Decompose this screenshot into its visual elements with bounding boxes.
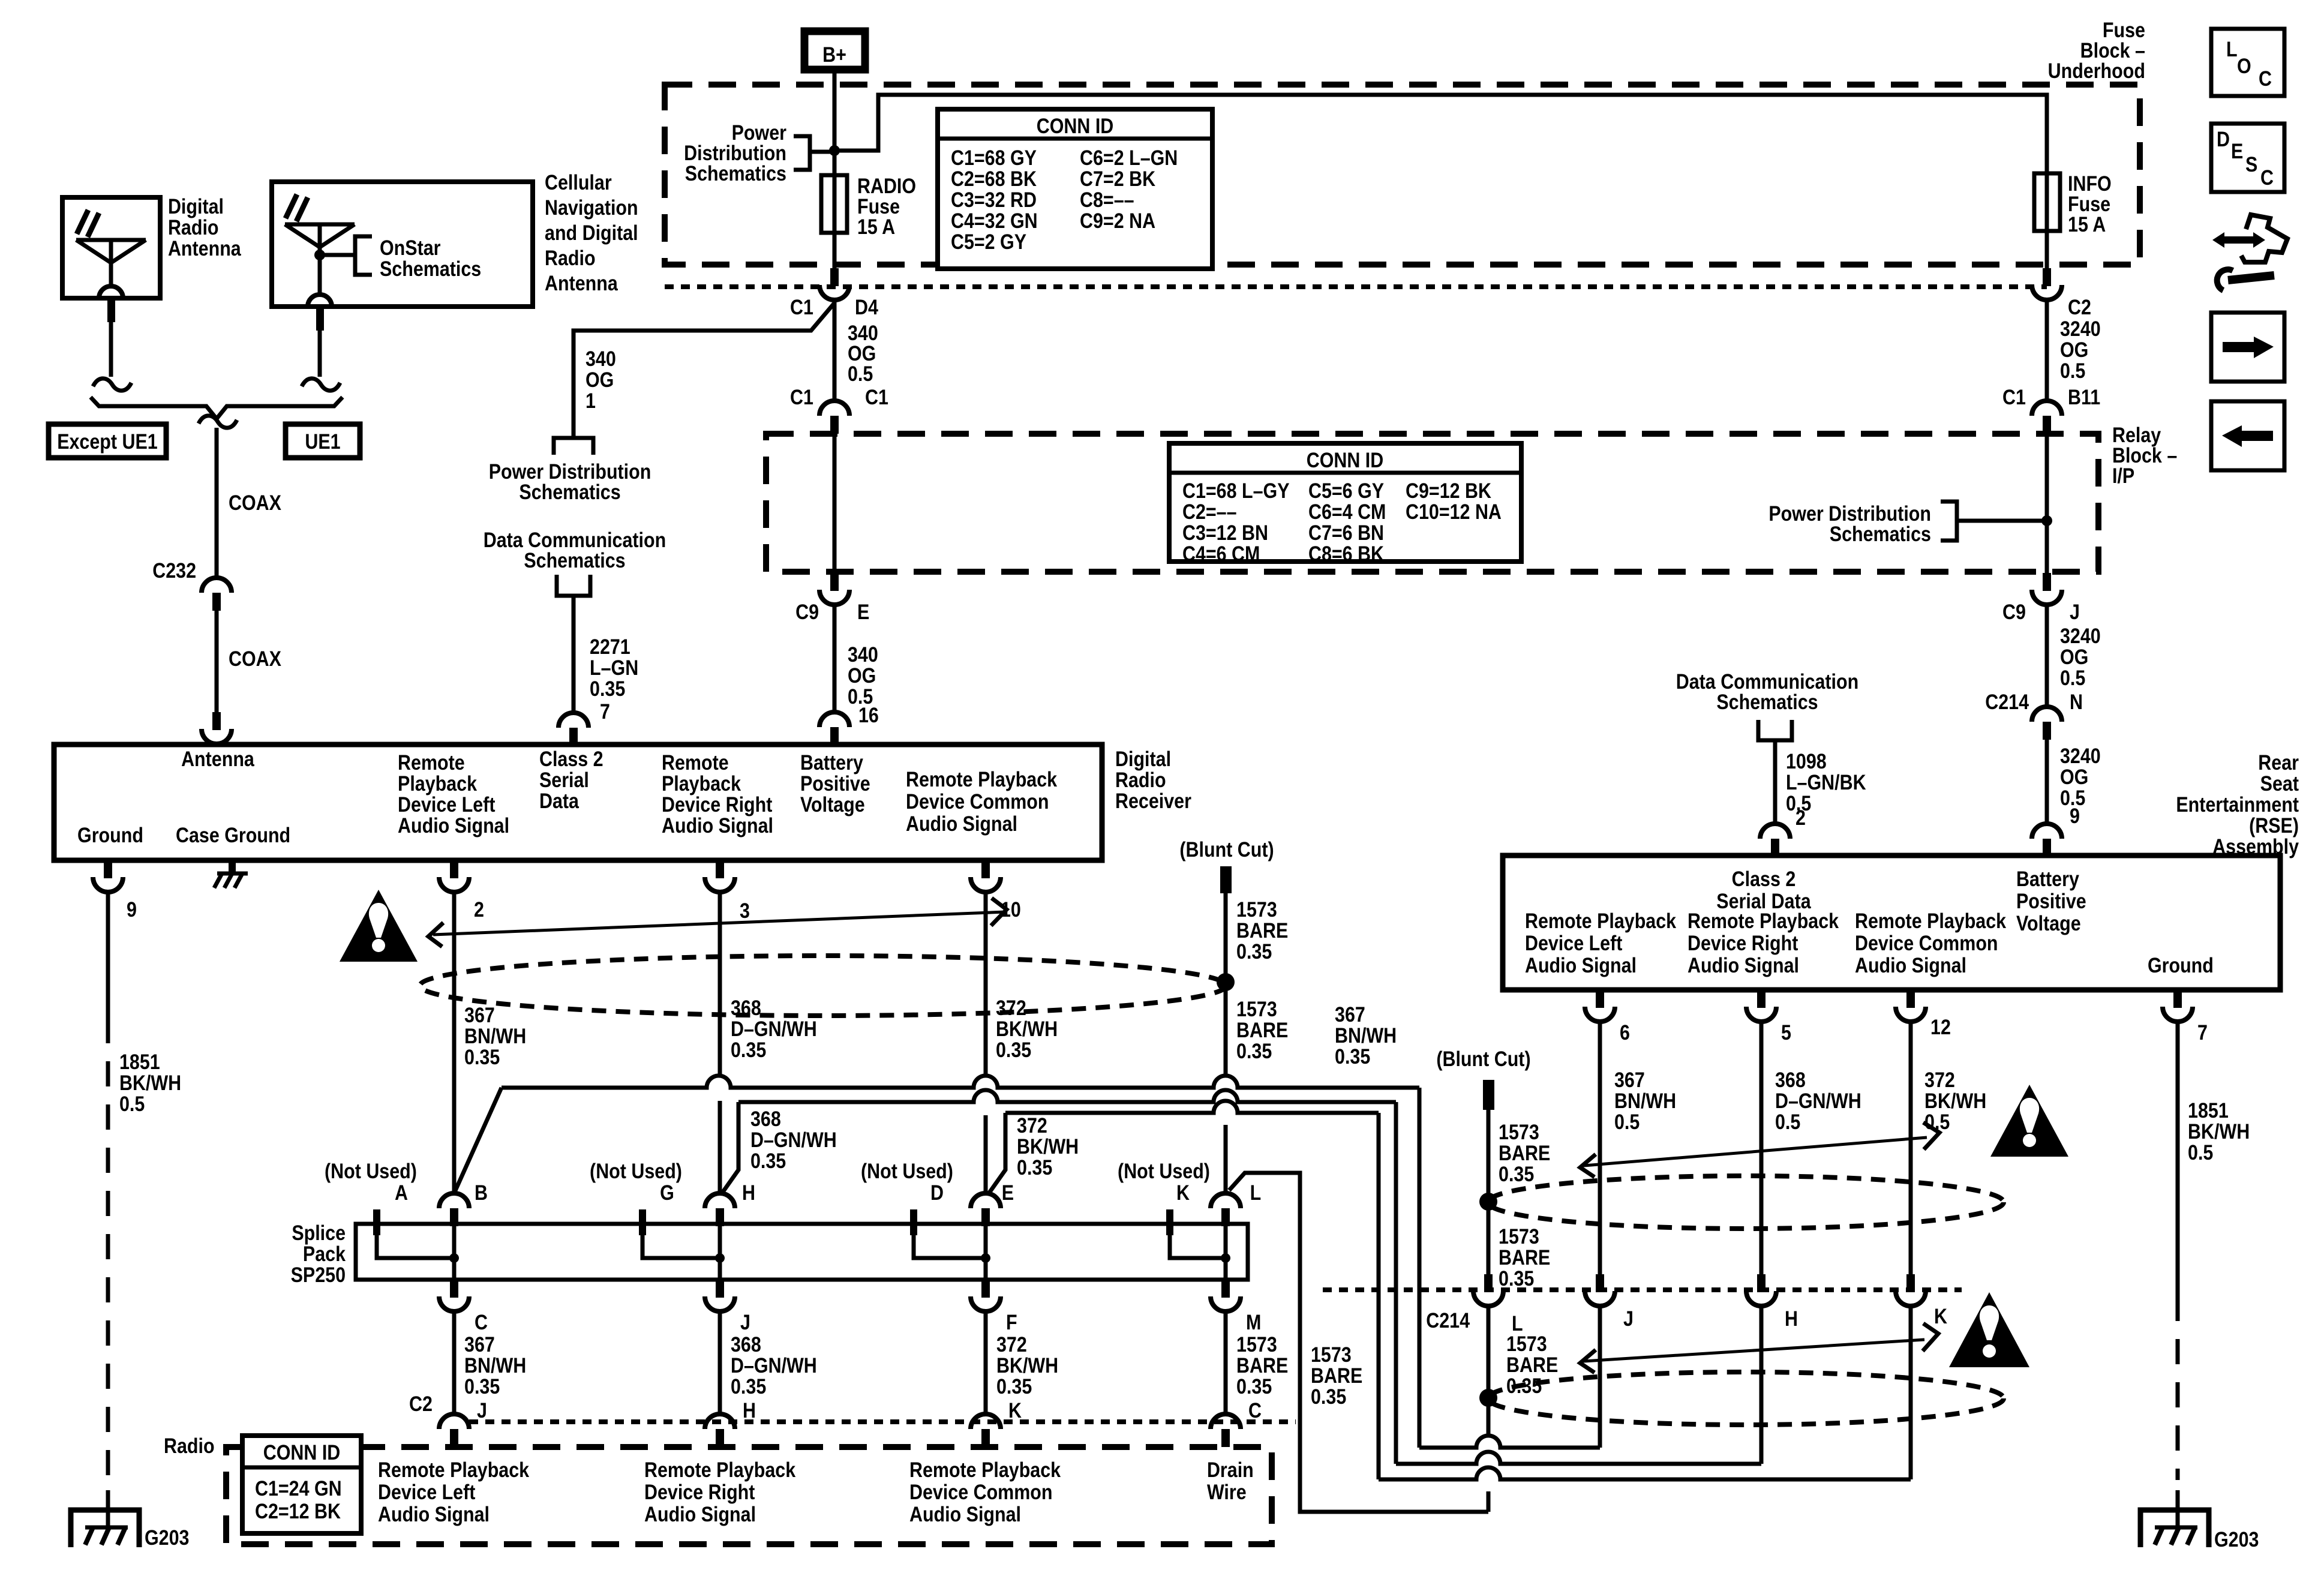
svg-text:Audio Signal: Audio Signal	[378, 1502, 490, 1526]
svg-text:Radio: Radio	[545, 246, 596, 269]
svg-text:Cellular: Cellular	[545, 170, 612, 194]
svg-text:Case Ground: Case Ground	[176, 823, 290, 846]
svg-text:0.35: 0.35	[590, 677, 625, 700]
fuse RADIO 15A	[821, 174, 916, 238]
svg-text:Device Left: Device Left	[398, 792, 496, 816]
svg-text:C9=2 NA: C9=2 NA	[1080, 209, 1155, 232]
svg-text:372: 372	[1924, 1068, 1955, 1091]
svg-text:Remote Playback: Remote Playback	[909, 1458, 1061, 1481]
svg-text:CONN ID: CONN ID	[1037, 114, 1114, 137]
svg-text:Device Common: Device Common	[1855, 931, 1998, 954]
svg-text:N: N	[2070, 690, 2083, 713]
svg-text:2: 2	[474, 897, 484, 921]
svg-text:368: 368	[731, 1332, 761, 1356]
svg-text:(Blunt Cut): (Blunt Cut)	[1179, 837, 1274, 861]
svg-text:C1: C1	[2002, 385, 2026, 409]
svg-text:Digital: Digital	[168, 194, 224, 218]
power distribution bracket left	[794, 136, 834, 170]
svg-text:Radio: Radio	[164, 1434, 215, 1457]
svg-text:BN/WH: BN/WH	[1335, 1023, 1397, 1047]
svg-text:Audio Signal: Audio Signal	[644, 1502, 756, 1526]
svg-text:I/P: I/P	[2112, 464, 2134, 487]
box UE1	[286, 424, 360, 458]
svg-text:368: 368	[750, 1107, 781, 1130]
svg-text:1573: 1573	[1236, 897, 1277, 921]
svg-text:0.35: 0.35	[1236, 1039, 1272, 1062]
svg-text:E: E	[857, 600, 869, 623]
svg-text:Antenna: Antenna	[168, 236, 241, 260]
connector C1 B11 relay block	[2002, 385, 2100, 434]
antenna symbol 2	[285, 194, 355, 307]
wire 367 lower horizontal	[1419, 1436, 1600, 1448]
label not used A	[325, 1159, 417, 1204]
svg-text:Schematics: Schematics	[685, 161, 786, 185]
svg-text:K: K	[1934, 1304, 1947, 1328]
svg-text:J: J	[2070, 600, 2080, 623]
svg-text:and Digital: and Digital	[545, 221, 638, 244]
svg-text:J: J	[1623, 1307, 1634, 1330]
svg-text:Battery: Battery	[800, 751, 864, 774]
svg-text:2271: 2271	[590, 635, 630, 658]
icon LOC box	[2211, 29, 2284, 96]
label radio drain wire	[1207, 1458, 1254, 1503]
drain wire 2 upper	[1488, 1110, 1550, 1274]
label not used D	[861, 1159, 953, 1204]
svg-text:C1: C1	[865, 385, 888, 409]
label COAX upper	[229, 491, 281, 514]
onstar tap dot	[314, 250, 355, 260]
svg-text:BARE: BARE	[1506, 1353, 1558, 1376]
svg-text:BARE: BARE	[1311, 1364, 1362, 1387]
svg-text:C2: C2	[409, 1392, 433, 1415]
svg-text:B: B	[475, 1181, 488, 1204]
svg-text:BK/WH: BK/WH	[119, 1071, 181, 1094]
svg-text:Voltage: Voltage	[800, 792, 865, 816]
svg-text:367: 367	[464, 1003, 495, 1026]
svg-text:(Not Used): (Not Used)	[590, 1159, 682, 1182]
svg-text:1573: 1573	[1506, 1332, 1547, 1355]
svg-text:C8=6 BK: C8=6 BK	[1308, 542, 1384, 565]
ip harness dotted line	[665, 284, 2047, 289]
label not used K	[1118, 1159, 1210, 1204]
label Power Distribution Schematics left	[684, 121, 786, 185]
leader line warning 3	[1580, 1323, 1938, 1373]
wire 3240 OG 0.5 mid	[2047, 605, 2101, 707]
label Fuse Block Underhood	[2048, 18, 2145, 82]
wire H down	[1759, 1306, 1764, 1464]
svg-text:C10=12 NA: C10=12 NA	[1406, 500, 1502, 523]
wire 368 right vertical	[1394, 1102, 1398, 1464]
svg-text:Class 2: Class 2	[1732, 867, 1796, 890]
svg-text:Battery: Battery	[2016, 867, 2080, 890]
branch wire 340 OG 1	[574, 303, 834, 438]
splice stub D	[910, 1209, 986, 1258]
wire 3240 OG 0.5 upper right	[2047, 299, 2101, 401]
connector pin 16 receiver	[819, 712, 849, 745]
junction dot B+ feed	[829, 145, 840, 156]
svg-text:C: C	[2260, 166, 2274, 189]
svg-text:340: 340	[585, 347, 616, 370]
c214 dotted line	[1323, 1287, 1962, 1292]
connector splice C	[439, 1280, 488, 1334]
connector pin 9 ground	[93, 860, 137, 921]
svg-text:Seat: Seat	[2260, 772, 2299, 795]
conn id table radio	[242, 1436, 361, 1533]
svg-text:0.5: 0.5	[1775, 1110, 1800, 1133]
svg-text:0.35: 0.35	[1335, 1044, 1370, 1068]
svg-text:BARE: BARE	[1236, 918, 1288, 942]
drain wire 1 upper	[1226, 893, 1288, 1074]
svg-text:E: E	[2231, 139, 2243, 163]
connector C9 E	[795, 573, 869, 623]
svg-text:(Not Used): (Not Used)	[325, 1159, 417, 1182]
connector C1 D4	[790, 268, 879, 319]
svg-text:G: G	[660, 1181, 674, 1204]
svg-text:1573: 1573	[1236, 1332, 1277, 1356]
svg-text:Device Right: Device Right	[1688, 931, 1798, 954]
icon arrow left box	[2211, 401, 2284, 470]
connector rse pin 6	[1585, 990, 1630, 1044]
connector radio H	[705, 1414, 735, 1447]
svg-text:E: E	[1002, 1181, 1014, 1204]
connector radio C2 J	[439, 1414, 469, 1447]
splice junction dot E	[981, 1181, 1014, 1280]
svg-text:B+: B+	[822, 43, 846, 66]
svg-text:Audio Signal: Audio Signal	[1855, 953, 1966, 977]
svg-text:(Not Used): (Not Used)	[1118, 1159, 1210, 1182]
svg-text:BK/WH: BK/WH	[2188, 1119, 2250, 1143]
svg-text:340: 340	[848, 643, 878, 666]
svg-text:Digital: Digital	[1115, 747, 1171, 770]
warning triangle 2	[1990, 1085, 2068, 1157]
svg-text:0.35: 0.35	[464, 1374, 500, 1398]
svg-text:C4=32 GN: C4=32 GN	[951, 209, 1038, 232]
svg-text:COAX: COAX	[229, 647, 281, 670]
svg-text:BN/WH: BN/WH	[464, 1024, 526, 1047]
label Battery Positive Voltage	[800, 751, 870, 816]
connector pin 10	[971, 860, 1021, 921]
label Power Distribution Schematics right	[1768, 502, 1931, 545]
label 1573 BARE between	[1499, 1224, 1550, 1290]
shield ellipse 1	[420, 956, 1226, 1016]
svg-text:L: L	[1250, 1181, 1262, 1204]
svg-text:OG: OG	[848, 664, 876, 687]
ground wire 1851 left	[108, 891, 181, 1512]
svg-text:Audio Signal: Audio Signal	[1688, 953, 1799, 977]
label Splice Pack SP250	[291, 1221, 346, 1286]
connector pin 3	[705, 860, 750, 922]
svg-text:BK/WH: BK/WH	[996, 1353, 1058, 1377]
svg-text:16: 16	[858, 703, 879, 727]
wire 1098 L-GN/BK	[1775, 740, 1866, 829]
svg-text:BARE: BARE	[1236, 1018, 1288, 1041]
svg-text:Audio Signal: Audio Signal	[906, 812, 1017, 835]
wire rse 368 D-GN/WH 0.5	[1761, 1022, 1861, 1274]
svg-text:D–GN/WH: D–GN/WH	[731, 1353, 817, 1377]
connector splice J	[705, 1280, 750, 1334]
wire break below brace	[199, 416, 237, 428]
svg-text:A: A	[395, 1181, 408, 1204]
svg-text:1573: 1573	[1499, 1224, 1539, 1248]
svg-text:Antenna: Antenna	[545, 271, 618, 295]
svg-text:C214: C214	[1985, 690, 2029, 713]
svg-text:372: 372	[1017, 1113, 1047, 1137]
svg-text:(RSE): (RSE)	[2249, 813, 2299, 837]
svg-text:368: 368	[1775, 1068, 1806, 1091]
connector splice F	[971, 1280, 1017, 1334]
shield dot upper right	[1479, 1193, 1497, 1211]
svg-text:Playback: Playback	[398, 772, 478, 795]
digital radio receiver box	[54, 745, 1102, 860]
connector rse pin 12	[1896, 990, 1951, 1038]
label rse remote playback left	[1525, 909, 1677, 977]
label not used G	[590, 1159, 682, 1204]
wire 340 OG 0.5 to pin 16	[834, 605, 879, 727]
svg-text:0.35: 0.35	[1499, 1266, 1534, 1290]
svg-text:Navigation: Navigation	[545, 196, 638, 219]
svg-text:3240: 3240	[2060, 744, 2101, 767]
svg-text:C1=68 L–GY: C1=68 L–GY	[1182, 479, 1290, 502]
wire 367 horizontal run	[502, 1076, 1419, 1088]
svg-text:C4=6 CM: C4=6 CM	[1182, 542, 1260, 565]
svg-text:BK/WH: BK/WH	[1017, 1134, 1079, 1158]
connector pin 9 rse	[2032, 824, 2062, 857]
svg-text:(Not Used): (Not Used)	[861, 1159, 953, 1182]
connector C232	[202, 578, 232, 611]
ground wire 1851 right	[2178, 1022, 2250, 1512]
splice stub A	[373, 1209, 454, 1258]
power distribution bracket bottom	[554, 438, 593, 455]
label Antenna pin	[181, 747, 254, 770]
svg-text:Schematics: Schematics	[1830, 522, 1931, 545]
svg-text:L: L	[2226, 37, 2238, 61]
svg-text:C9: C9	[795, 600, 819, 623]
svg-text:Assembly: Assembly	[2212, 834, 2299, 858]
label Remote Playback Device Right	[662, 751, 773, 837]
svg-text:6: 6	[1620, 1020, 1630, 1044]
svg-text:C6=2 L–GN: C6=2 L–GN	[1080, 146, 1178, 169]
svg-text:D–GN/WH: D–GN/WH	[750, 1128, 837, 1151]
label Data Communication Schematics right	[1676, 670, 1858, 713]
svg-text:OG: OG	[2060, 338, 2088, 361]
label COAX lower	[229, 647, 281, 670]
svg-text:0.35: 0.35	[1017, 1155, 1052, 1179]
coax wire lower	[215, 611, 219, 712]
svg-text:C7=2 BK: C7=2 BK	[1080, 167, 1155, 190]
wire 367 diagonal to horizontal	[454, 1088, 502, 1193]
drain wire 2 lower	[1487, 1306, 1491, 1512]
label Digital Radio Receiver	[1115, 747, 1191, 812]
wire break antenna 1	[93, 379, 131, 391]
svg-text:C1: C1	[790, 295, 813, 319]
wire 367 BN/WH from pin 2	[454, 893, 526, 1193]
svg-text:7: 7	[2197, 1020, 2208, 1044]
svg-text:Schematics: Schematics	[519, 480, 620, 503]
svg-text:L–GN/BK: L–GN/BK	[1786, 770, 1866, 794]
drain route from splice L	[1229, 1173, 1488, 1512]
svg-text:Radio: Radio	[1115, 768, 1166, 791]
svg-text:0.35: 0.35	[1236, 939, 1272, 963]
svg-text:O: O	[2237, 54, 2251, 77]
svg-text:2: 2	[1795, 806, 1806, 829]
svg-text:Device Common: Device Common	[906, 789, 1049, 813]
svg-text:Antenna: Antenna	[181, 747, 254, 770]
svg-text:Remote Playback: Remote Playback	[378, 1458, 530, 1481]
svg-text:D–GN/WH: D–GN/WH	[1775, 1089, 1861, 1112]
wire B+ to fuse	[833, 73, 837, 268]
conn id table relay block	[1169, 443, 1521, 565]
wire 3240 OG 0.5 to pin 9	[2047, 740, 2101, 827]
svg-text:C7=6 BN: C7=6 BN	[1308, 521, 1384, 544]
svg-text:Pack: Pack	[303, 1242, 346, 1265]
svg-text:C2=68 BK: C2=68 BK	[951, 167, 1037, 190]
svg-text:7: 7	[600, 700, 610, 723]
svg-text:Device Right: Device Right	[662, 792, 772, 816]
connector splice H	[705, 1193, 735, 1226]
svg-text:Remote: Remote	[662, 751, 729, 774]
svg-text:C6=4 CM: C6=4 CM	[1308, 500, 1386, 523]
icon DESC box	[2211, 124, 2284, 192]
svg-text:1: 1	[585, 389, 596, 412]
label Digital Radio Antenna	[168, 194, 241, 260]
svg-text:H: H	[743, 1398, 756, 1422]
svg-text:K: K	[1008, 1398, 1022, 1422]
splice junction dot B	[449, 1181, 488, 1280]
label rse ground	[2148, 953, 2214, 977]
svg-text:M: M	[1246, 1310, 1261, 1334]
label rse class 2 serial data	[1716, 867, 1811, 912]
splice pack box	[356, 1224, 1248, 1280]
splice stub G	[639, 1209, 720, 1258]
svg-text:Audio Signal: Audio Signal	[398, 813, 509, 837]
svg-text:1851: 1851	[2188, 1098, 2229, 1122]
svg-text:0.35: 0.35	[731, 1374, 766, 1398]
svg-text:D4: D4	[855, 295, 879, 319]
data comm bracket left	[557, 575, 590, 596]
svg-text:0.5: 0.5	[2060, 359, 2085, 382]
svg-text:UE1: UE1	[305, 430, 340, 453]
connector splice B	[439, 1193, 469, 1226]
label L 1573 BARE 0.35	[1506, 1311, 1558, 1397]
svg-text:368: 368	[731, 996, 761, 1019]
svg-text:Remote: Remote	[398, 751, 465, 774]
wire K down	[1909, 1306, 1913, 1479]
svg-text:BARE: BARE	[1499, 1245, 1550, 1269]
svg-text:OnStar: OnStar	[380, 236, 441, 259]
label C2 radio connector	[409, 1392, 433, 1415]
svg-text:0.35: 0.35	[1311, 1385, 1346, 1408]
svg-text:1851: 1851	[119, 1050, 160, 1073]
svg-text:0.5: 0.5	[2060, 666, 2085, 689]
svg-text:BARE: BARE	[1499, 1141, 1550, 1164]
label Rear Seat Entertainment RSE Assembly	[2176, 751, 2299, 858]
svg-text:1573: 1573	[1499, 1120, 1539, 1143]
label blunt cut 1	[1179, 837, 1274, 861]
connector C214 H	[1746, 1274, 1798, 1330]
svg-text:C9: C9	[2002, 600, 2026, 623]
wire rse 372 BK/WH 0.5	[1911, 1022, 1986, 1274]
relay block IP dashed box	[766, 434, 2098, 572]
coax wire upper	[215, 428, 219, 578]
icon service wrench	[2217, 269, 2274, 290]
svg-text:Voltage: Voltage	[2016, 911, 2081, 935]
leader line warning 2	[1580, 1122, 1939, 1177]
label Ground pin	[77, 823, 143, 846]
shield dot drain 1	[1217, 973, 1235, 991]
svg-text:Except UE1: Except UE1	[57, 430, 158, 453]
svg-text:367: 367	[464, 1332, 495, 1356]
svg-text:BARE: BARE	[1236, 1353, 1288, 1377]
label C232	[152, 559, 196, 582]
icon service outline	[2241, 215, 2287, 262]
label 340 OG 1	[585, 347, 616, 412]
wire through relay block left	[833, 434, 837, 573]
svg-text:C214: C214	[1426, 1308, 1470, 1332]
drain wire 1 lower	[1226, 997, 1288, 1193]
wire 2271 L-GN 0.35	[574, 596, 638, 723]
label Power Distribution Schematics bottom	[489, 460, 651, 503]
svg-text:5: 5	[1781, 1020, 1791, 1044]
svg-text:C2=12 BK: C2=12 BK	[255, 1499, 341, 1523]
svg-text:L–GN: L–GN	[590, 656, 638, 679]
wire 367 right vertical	[1418, 1088, 1422, 1448]
svg-text:Schematics: Schematics	[1716, 690, 1818, 713]
svg-text:D: D	[930, 1181, 944, 1204]
svg-text:Serial: Serial	[539, 768, 589, 791]
svg-text:Schematics: Schematics	[380, 257, 481, 280]
svg-text:Audio Signal: Audio Signal	[1525, 953, 1637, 977]
label Data Communication Schematics left	[484, 528, 666, 572]
svg-text:D–GN/WH: D–GN/WH	[731, 1017, 817, 1040]
wire 368 to radio	[720, 1311, 817, 1422]
splice stub K	[1166, 1209, 1226, 1258]
svg-text:BN/WH: BN/WH	[464, 1353, 526, 1377]
wire 368 lower horizontal	[1396, 1452, 1761, 1464]
svg-text:Playback: Playback	[662, 772, 741, 795]
svg-text:3: 3	[740, 899, 750, 922]
warning triangle 1	[340, 890, 418, 962]
svg-text:0.5: 0.5	[2188, 1140, 2213, 1164]
wire break antenna 2	[302, 379, 340, 391]
svg-text:3240: 3240	[2060, 624, 2101, 647]
svg-text:C1=68 GY: C1=68 GY	[951, 146, 1037, 169]
label radio remote playback common	[909, 1458, 1061, 1526]
wire 368 D-GN/WH from pin 3	[720, 893, 817, 1193]
fuse block underhood dashed box	[665, 85, 2140, 265]
connector rse pin 7 ground	[2163, 990, 2208, 1044]
fuse INFO 15A	[2034, 172, 2112, 236]
svg-text:1573: 1573	[1236, 997, 1277, 1020]
svg-text:Receiver: Receiver	[1115, 789, 1191, 812]
case ground symbol	[214, 860, 248, 888]
shield ellipse 2	[1488, 1176, 2004, 1229]
svg-text:BK/WH: BK/WH	[1924, 1089, 1986, 1112]
svg-text:Data: Data	[539, 789, 580, 812]
svg-text:0.35: 0.35	[1499, 1162, 1534, 1185]
wire rse 367 BN/WH 0.5	[1600, 1022, 1676, 1274]
svg-text:H: H	[1785, 1307, 1798, 1330]
label Case Ground pin	[176, 823, 290, 846]
connector splice M	[1211, 1280, 1261, 1334]
data comm bracket right	[1758, 720, 1792, 740]
connector C214 N	[1985, 690, 2083, 740]
icon service double arrow	[2212, 232, 2265, 248]
svg-text:J: J	[740, 1310, 750, 1334]
svg-text:C3=32 RD: C3=32 RD	[951, 188, 1037, 211]
svg-text:9: 9	[127, 897, 137, 921]
wire 372 corner to splice E	[988, 1113, 1079, 1194]
label Relay Block IP	[2112, 423, 2177, 487]
